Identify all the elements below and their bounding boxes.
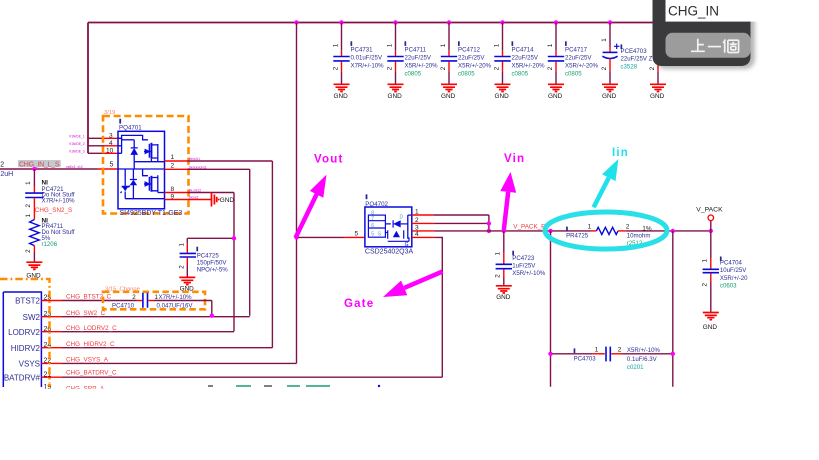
wire CHG_IN_L_S: [0, 168, 98, 170]
ground: [334, 84, 350, 91]
svg-text:Gate: Gate: [344, 298, 374, 310]
svg-text:1uF/25V: 1uF/25V: [512, 262, 536, 269]
glyph shang: [691, 39, 739, 53]
wire pin 2: [165, 168, 188, 170]
svg-text:9x.x/x12: 9x.x/x12: [189, 189, 201, 193]
svg-text:S: S: [378, 231, 382, 237]
svg-text:2: 2: [171, 162, 175, 169]
glyph yi: [708, 46, 721, 48]
capacitor hidden behind overlay: [649, 64, 666, 100]
svg-text:PQ4701: PQ4701: [119, 125, 142, 132]
svg-text:9xxx/x1: 9xxx/x1: [189, 157, 200, 161]
svg-text:1: 1: [171, 154, 175, 161]
svg-text:6: 6: [371, 223, 374, 229]
svg-text:G: G: [405, 242, 409, 248]
svg-text:c0805: c0805: [458, 71, 475, 78]
svg-text:0.047UF/16V: 0.047UF/16V: [157, 302, 194, 309]
svg-text:D: D: [400, 214, 404, 220]
wire right drop to PC4703 rail: [672, 231, 674, 387]
top fet body diode: [131, 140, 138, 162]
lower fet zener diode: [121, 185, 130, 198]
svg-text:PC4712: PC4712: [458, 47, 481, 54]
svg-text:1: 1: [547, 43, 554, 47]
svg-text:Vin: Vin: [504, 153, 525, 165]
svg-text:5: 5: [110, 161, 114, 168]
resistor PR4725: [566, 224, 652, 248]
svg-text:SI4925BDY-T1-GE3: SI4925BDY-T1-GE3: [120, 210, 183, 217]
wire pin 1: [165, 160, 188, 162]
svg-text:1: 1: [332, 43, 339, 47]
svg-text:1: 1: [25, 214, 32, 218]
svg-text:c3528: c3528: [621, 64, 638, 71]
wire vout horizontal to pin 5: [297, 236, 344, 238]
wire pin10: [88, 152, 104, 154]
svg-text:NPO/+/-5%: NPO/+/-5%: [197, 266, 229, 273]
svg-text:5: 5: [371, 231, 374, 237]
svg-text:22uF/25V: 22uF/25V: [405, 54, 432, 61]
svg-text:PC4723: PC4723: [512, 255, 535, 262]
arrow Vin: [504, 192, 508, 230]
svg-text:V1N/DE_2: V1N/DE_2: [69, 142, 85, 146]
svg-text:2: 2: [495, 274, 502, 278]
transistor PQ4702 body: [365, 207, 412, 247]
wire pin 8: [165, 192, 188, 194]
node junction PC4723: [502, 229, 506, 233]
svg-text:PC4731: PC4731: [351, 47, 374, 54]
internal pad box: [368, 215, 385, 237]
internal diode: [385, 220, 393, 227]
svg-text:GND: GND: [334, 93, 349, 100]
wire bus drop to PQ4701 gate pins: [87, 23, 89, 154]
capacitor PC4725: [178, 236, 236, 292]
svg-text:1: 1: [702, 259, 709, 263]
svg-text:X7R/+/-10%: X7R/+/-10%: [351, 63, 385, 70]
internal source rail pin5-pin2: [118, 168, 165, 170]
svg-text:3: 3: [109, 132, 113, 139]
wire left drop to PC4703 rail: [550, 231, 552, 387]
svg-text:2: 2: [0, 161, 4, 168]
svg-text:2: 2: [626, 224, 630, 231]
svg-text:22uF/25V: 22uF/25V: [565, 54, 592, 61]
svg-text:10uF/25V: 10uF/25V: [720, 267, 747, 274]
wire pin 2: [412, 222, 434, 224]
svg-text:BATDRV#: BATDRV#: [4, 374, 41, 383]
wire pin2 vertical down to SW2: [249, 169, 251, 315]
wire vout vertical from bus: [296, 23, 298, 364]
svg-text:CHG_IN_L_S: CHG_IN_L_S: [19, 161, 60, 168]
svg-text:HIDRV2: HIDRV2: [11, 344, 41, 353]
svg-text:2: 2: [178, 265, 185, 269]
wire pin4: [88, 145, 104, 147]
capacitor PC4717: [547, 20, 599, 100]
svg-text:CHG_SN2_S: CHG_SN2_S: [35, 207, 72, 214]
svg-text:CHG_IN: CHG_IN: [668, 4, 719, 19]
svg-text:c0805: c0805: [405, 71, 422, 78]
ground: [548, 84, 564, 91]
ground: [441, 84, 457, 91]
transistor PQ4702 designator mark: [366, 194, 368, 199]
ground: [26, 262, 42, 269]
node junction on SW2: [210, 314, 214, 318]
svg-text:2: 2: [601, 66, 608, 70]
svg-text:2: 2: [332, 66, 339, 70]
lower fet gate/channel: [148, 177, 150, 191]
svg-text:SW2: SW2: [23, 313, 41, 322]
svg-text:V1N/DE_3: V1N/DE_3: [69, 150, 85, 154]
ground: [650, 84, 666, 91]
svg-text:2: 2: [25, 249, 32, 253]
svg-text:2: 2: [702, 283, 709, 287]
svg-text:9xx/x2: 9xx/x2: [189, 196, 199, 200]
ground: [388, 84, 404, 91]
svg-text:X7R/+/-10%: X7R/+/-10%: [159, 294, 193, 301]
capacitor PC4704: [702, 231, 749, 331]
svg-text:LODRV2: LODRV2: [8, 328, 40, 337]
capacitor PC4703: [548, 347, 675, 372]
svg-text:PC4725: PC4725: [197, 252, 220, 259]
ellipse highlight on PR4725: [545, 212, 667, 249]
svg-text:PC4703: PC4703: [574, 356, 597, 363]
svg-text:PC4704: PC4704: [720, 259, 743, 266]
svg-text:VSYS: VSYS: [19, 360, 40, 369]
ground: [496, 286, 512, 293]
lower source rail to pin9: [125, 198, 164, 201]
capacitor PC4714: [493, 20, 545, 100]
wire pin1 vertical down to HIDRV2: [271, 161, 273, 348]
svg-text:0.1uF/6.3V: 0.1uF/6.3V: [627, 356, 658, 363]
wire pin 4 gate: [412, 236, 434, 238]
svg-text:c0201: c0201: [627, 364, 644, 371]
svg-text:1: 1: [440, 43, 447, 47]
svg-text:1: 1: [588, 224, 592, 231]
svg-text:PC4711: PC4711: [405, 47, 427, 54]
svg-text:2: 2: [132, 294, 136, 301]
svg-text:X5R/+/-20%: X5R/+/-20%: [458, 63, 492, 70]
ground: [495, 84, 511, 91]
net label CHG_IN_L_S: [18, 160, 61, 167]
wire BTST2 corner down to SW2: [211, 301, 213, 316]
lower fet body diode: [130, 178, 137, 199]
svg-text:CHG_BTST2_C: CHG_BTST2_C: [66, 294, 112, 301]
svg-text:1: 1: [386, 43, 393, 47]
svg-text:5: 5: [355, 230, 359, 237]
orange dash-dot region boundary: [0, 279, 51, 387]
svg-text:PR4725: PR4725: [566, 233, 589, 240]
svg-text:r1206: r1206: [42, 241, 58, 248]
capacitor PC4710 in change box: [103, 287, 212, 310]
svg-text:GND: GND: [548, 93, 563, 100]
node junction V_PACK drop: [709, 229, 713, 233]
wire pins12 drop: [488, 215, 490, 231]
svg-text:1: 1: [25, 181, 32, 185]
svg-text:2: 2: [440, 66, 447, 70]
svg-text:X5R/+/-20%: X5R/+/-20%: [565, 63, 599, 70]
svg-text:CSD25402Q3A: CSD25402Q3A: [365, 249, 414, 256]
svg-text:22uF/25V Z: 22uF/25V Z: [621, 56, 653, 63]
svg-text:150pF/50V: 150pF/50V: [197, 259, 228, 266]
wire pin 1: [412, 214, 433, 216]
wire pin 9 to gnd: [165, 199, 212, 201]
svg-text:X5R/+/-20%: X5R/+/-20%: [512, 63, 546, 70]
svg-text:GND: GND: [496, 294, 511, 301]
capacitor PC4721 (NI): [25, 169, 75, 208]
svg-text:GND: GND: [220, 197, 235, 204]
svg-text:X7R/+/-10%: X7R/+/-10%: [42, 198, 76, 205]
svg-text:c0805: c0805: [512, 71, 529, 78]
svg-text:V1N/DE_1: V1N/DE_1: [69, 135, 85, 139]
transistor PQ4701 body: [118, 131, 165, 209]
svg-text:GND: GND: [495, 93, 510, 100]
svg-text:1: 1: [595, 347, 599, 354]
svg-text:c0805: c0805: [565, 71, 582, 78]
popup title area: [666, 0, 819, 22]
op-amp U? charger IC body edge: [3, 292, 41, 387]
svg-text:1: 1: [601, 38, 608, 42]
svg-text:10: 10: [106, 147, 114, 154]
svg-text:X5R/+/-10%: X5R/+/-10%: [627, 347, 661, 354]
svg-text:X5R/+/-20: X5R/+/-20: [720, 275, 748, 282]
svg-text:2: 2: [25, 204, 32, 208]
svg-text:1: 1: [493, 43, 500, 47]
popup shadow: [656, 5, 755, 69]
svg-text:7: 7: [371, 216, 374, 222]
ground: [703, 313, 719, 320]
svg-text:4: 4: [109, 140, 113, 147]
svg-text:PC4714: PC4714: [512, 47, 535, 54]
svg-text:GND: GND: [650, 93, 665, 100]
top fet arrow: [144, 151, 151, 153]
svg-text:GND: GND: [388, 93, 403, 100]
highlight box (orange dashed): [103, 116, 189, 214]
op-amp U1 designator mark: [119, 119, 121, 124]
svg-text:10mohm: 10mohm: [627, 233, 651, 240]
svg-text:8: 8: [171, 186, 175, 193]
svg-text:2: 2: [547, 66, 554, 70]
top fet gate/channel: [148, 144, 150, 158]
internal fet: [408, 215, 412, 239]
wire pin3: [88, 137, 104, 139]
svg-text:1: 1: [495, 252, 502, 256]
svg-text:22uF/25V: 22uF/25V: [512, 54, 539, 61]
svg-text:2: 2: [649, 66, 656, 70]
button previous: [666, 33, 751, 58]
svg-text:CHG_LODRV2_C: CHG_LODRV2_C: [66, 325, 117, 332]
capacitor PC4711: [386, 20, 438, 100]
svg-text:PC4710: PC4710: [112, 302, 135, 309]
lower fet gate drop: [125, 169, 148, 185]
svg-text:BTST2: BTST2: [15, 297, 40, 306]
capacitor PC4712: [440, 20, 492, 100]
popup dark box: [653, 0, 751, 66]
svg-text:CHG_VSYS_A: CHG_VSYS_A: [66, 357, 109, 364]
svg-text:GND: GND: [602, 93, 617, 100]
glyph ge: [723, 39, 738, 52]
capacitor PC4723: [495, 231, 546, 301]
svg-text:1: 1: [178, 243, 185, 247]
ground (rotated bars): [212, 193, 219, 207]
svg-text:2: 2: [386, 66, 393, 70]
svg-text:2.2uH: 2.2uH: [0, 171, 13, 178]
svg-text:xx6/x1_x12: xx6/x1_x12: [66, 165, 83, 169]
node junction left PC4703 drop: [548, 229, 552, 233]
svg-text:Iin: Iin: [612, 147, 629, 159]
svg-text:V_PACK: V_PACK: [696, 206, 723, 213]
lower fet drain to pin8: [158, 192, 165, 194]
arrow Gate: [404, 272, 442, 288]
svg-text:X5R/+/-20%: X5R/+/-20%: [405, 63, 439, 70]
top fet drain rail to pin1: [134, 161, 164, 163]
svg-text:CHG_HIDRV2_C: CHG_HIDRV2_C: [66, 341, 115, 348]
arrow Iin (cyan): [594, 178, 609, 208]
node vout junction: [294, 235, 298, 239]
svg-text:X5R/+/-10%: X5R/+/-10%: [512, 270, 546, 277]
capacitor PC4731: [332, 20, 384, 100]
svg-text:Vout: Vout: [314, 154, 344, 166]
wire pin 3 V_PACK_R: [412, 230, 434, 232]
lower fet arrow: [144, 183, 151, 185]
node junction right PC4703 drop: [671, 229, 675, 233]
arrow Vout: [296, 194, 318, 238]
internal top fet gate path: [122, 135, 148, 140]
wire top bus: [88, 22, 653, 24]
svg-text:GND: GND: [703, 324, 718, 331]
ground: [179, 277, 195, 284]
svg-text:CHG_BATDRV_C: CHG_BATDRV_C: [66, 369, 117, 376]
ground: [602, 84, 618, 91]
svg-text:1%: 1%: [642, 226, 652, 233]
svg-text:22uF/25V: 22uF/25V: [458, 54, 485, 61]
svg-text:2: 2: [493, 66, 500, 70]
svg-text:GND: GND: [441, 93, 456, 100]
svg-text:0.01uF/25V: 0.01uF/25V: [351, 54, 383, 61]
svg-text:c0603: c0603: [720, 283, 737, 290]
internal gate bracket: [118, 138, 122, 153]
resistor PR4711 (NI): [25, 205, 75, 262]
wire pin8 vertical down to LODRV2: [233, 193, 235, 332]
node bus/vout junction: [294, 20, 298, 24]
svg-text:CHG_SW2_C: CHG_SW2_C: [66, 310, 106, 317]
svg-text:V_PACK_R: V_PACK_R: [513, 224, 546, 231]
capacitor PCE4703 polarized: [601, 20, 653, 100]
svg-text:PCE4703: PCE4703: [621, 48, 648, 55]
node junction CHG_IN_L_S: [32, 167, 36, 171]
svg-text:9xxxxxxx/x1: 9xxxxxxx/x1: [189, 166, 207, 170]
svg-text:PC4717: PC4717: [565, 47, 588, 54]
svg-text:2: 2: [618, 347, 622, 354]
